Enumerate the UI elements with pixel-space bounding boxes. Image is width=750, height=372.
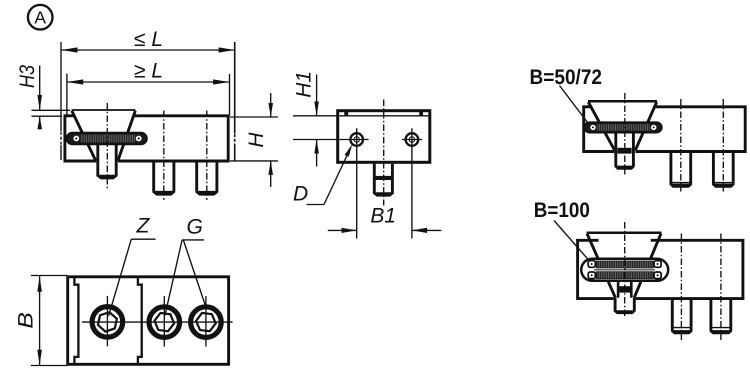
svg-text:B=100: B=100 (534, 199, 590, 222)
jaw top edge (B=100) (587, 231, 662, 234)
dimension B1 (328, 204, 442, 233)
clamping jaw left slant (72, 111, 96, 161)
right hole axis line (402, 139, 422, 141)
stud B centerline (720, 234, 722, 342)
jaw stud (B=50/72) (615, 132, 635, 169)
stud (middle view) (373, 164, 394, 197)
jaw top edge (B=50/72) (588, 100, 657, 103)
double serrated insert band (B=100) (581, 259, 668, 281)
stud 2 (view A) (195, 161, 218, 196)
svg-text:H3: H3 (16, 65, 39, 88)
stud A centerline (680, 99, 682, 192)
right break line 1 (234, 42, 236, 161)
rail end-view body (338, 111, 430, 163)
svg-text:B=50/72: B=50/72 (530, 66, 603, 89)
jaw right slant (634, 234, 661, 298)
svg-text:A: A (34, 8, 46, 28)
jaw left slant (587, 234, 615, 298)
leader to insert (560, 86, 591, 127)
svg-text:D: D (293, 183, 308, 206)
clamping jaw (view A): top edge (72, 109, 136, 111)
hole axis line (doubles as H1 lower extension) (293, 139, 369, 141)
svg-text:≥ L: ≥ L (134, 60, 163, 83)
hole vertical centerline left (doubles as B1 extension) (356, 128, 358, 238)
svg-text:B1: B1 (370, 204, 396, 227)
hole G1 (top view) (149, 296, 180, 346)
jaw centerline (view A) (106, 103, 108, 189)
hole Z (top view) (92, 296, 123, 346)
stud 1 (view A) (152, 161, 175, 196)
svg-text:G: G (187, 215, 203, 238)
left extension / break line (60, 42, 62, 160)
svg-text:H1: H1 (293, 71, 316, 98)
stud A (B=100) (671, 299, 692, 335)
dimension H3 (16, 65, 70, 130)
jaw right slant (635, 102, 656, 150)
rail body (B=100) (576, 239, 744, 300)
left extension line for greater-equal L (66, 74, 68, 115)
dimension "greater-equal L" (67, 60, 229, 85)
jaw plate left joint line (74, 277, 78, 366)
hole D left (350, 133, 363, 146)
hole axis horizontal (top view) (82, 321, 233, 323)
label D with leader (293, 144, 352, 205)
svg-text:B: B (15, 312, 38, 329)
dimension "less-equal L" (61, 28, 234, 53)
jaw centerline (B=50/72) (624, 93, 626, 175)
stud B (B=100) (710, 299, 733, 335)
clamping jaw right slant (118, 111, 136, 161)
jaw left slant (588, 102, 614, 150)
hole G2 (top view) (191, 296, 222, 346)
jaw thread end (B=100) (614, 298, 636, 314)
view label A (circled) (28, 5, 53, 30)
leader to insert (554, 221, 591, 263)
svg-text:≤ L: ≤ L (134, 28, 163, 51)
stud B centerline (722, 99, 724, 192)
hole right (406, 133, 419, 146)
label G with leaders (165, 215, 205, 315)
jaw stud (view A) (97, 144, 118, 179)
slot bottom line (339, 115, 428, 117)
dimension H1 (293, 71, 340, 167)
stud 1 centerline (163, 111, 165, 201)
svg-text:Z: Z (136, 215, 151, 238)
stud B (B=50/72) (712, 153, 734, 188)
svg-text:H: H (245, 132, 268, 148)
center axis (middle view) (383, 100, 385, 206)
jaw neck (B=100) (618, 281, 631, 298)
label Z with leader (109, 215, 156, 316)
serrated insert band (B=50/72) (584, 122, 661, 132)
stud 2 centerline (206, 111, 208, 201)
right extension line for greater-equal L (229, 74, 231, 116)
rail body (view A) (64, 115, 230, 163)
hole vertical centerline right (doubles as B1 extension) (411, 128, 413, 238)
slot lip section (left) (344, 112, 348, 116)
top view body (68, 277, 229, 365)
serrated insert band (view A) (67, 133, 147, 145)
slot lip section (right) (419, 112, 423, 116)
dimension H (230, 93, 278, 187)
jaw plate right joint line (138, 277, 142, 366)
dimension B (top view) (15, 276, 68, 366)
stud A (B=50/72) (670, 153, 692, 188)
rail body (B=50/72) (582, 106, 746, 153)
jaw centerline (B=100) (624, 222, 626, 318)
stud A centerline (680, 234, 682, 342)
